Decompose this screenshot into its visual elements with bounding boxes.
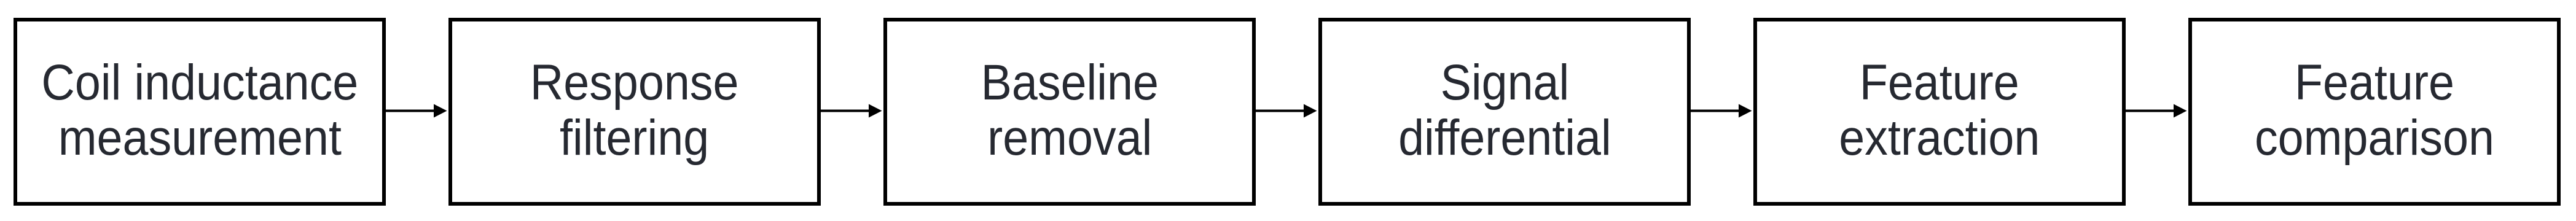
arrow 3 to 4: [1256, 104, 1317, 118]
box 6: Feature comparison: [2188, 18, 2561, 206]
arrow 5 to 6: [2126, 104, 2187, 118]
box 2: Response filtering: [448, 18, 821, 206]
box 3: Baseline removal: [883, 18, 1256, 206]
box 1: Coil inductance measurement: [14, 18, 386, 206]
arrow 1 to 2: [386, 104, 447, 118]
box 4: Signal differential: [1318, 18, 1691, 206]
box 5: Feature extraction: [1753, 18, 2126, 206]
arrow 2 to 3: [821, 104, 882, 118]
arrow 4 to 5: [1691, 104, 1752, 118]
